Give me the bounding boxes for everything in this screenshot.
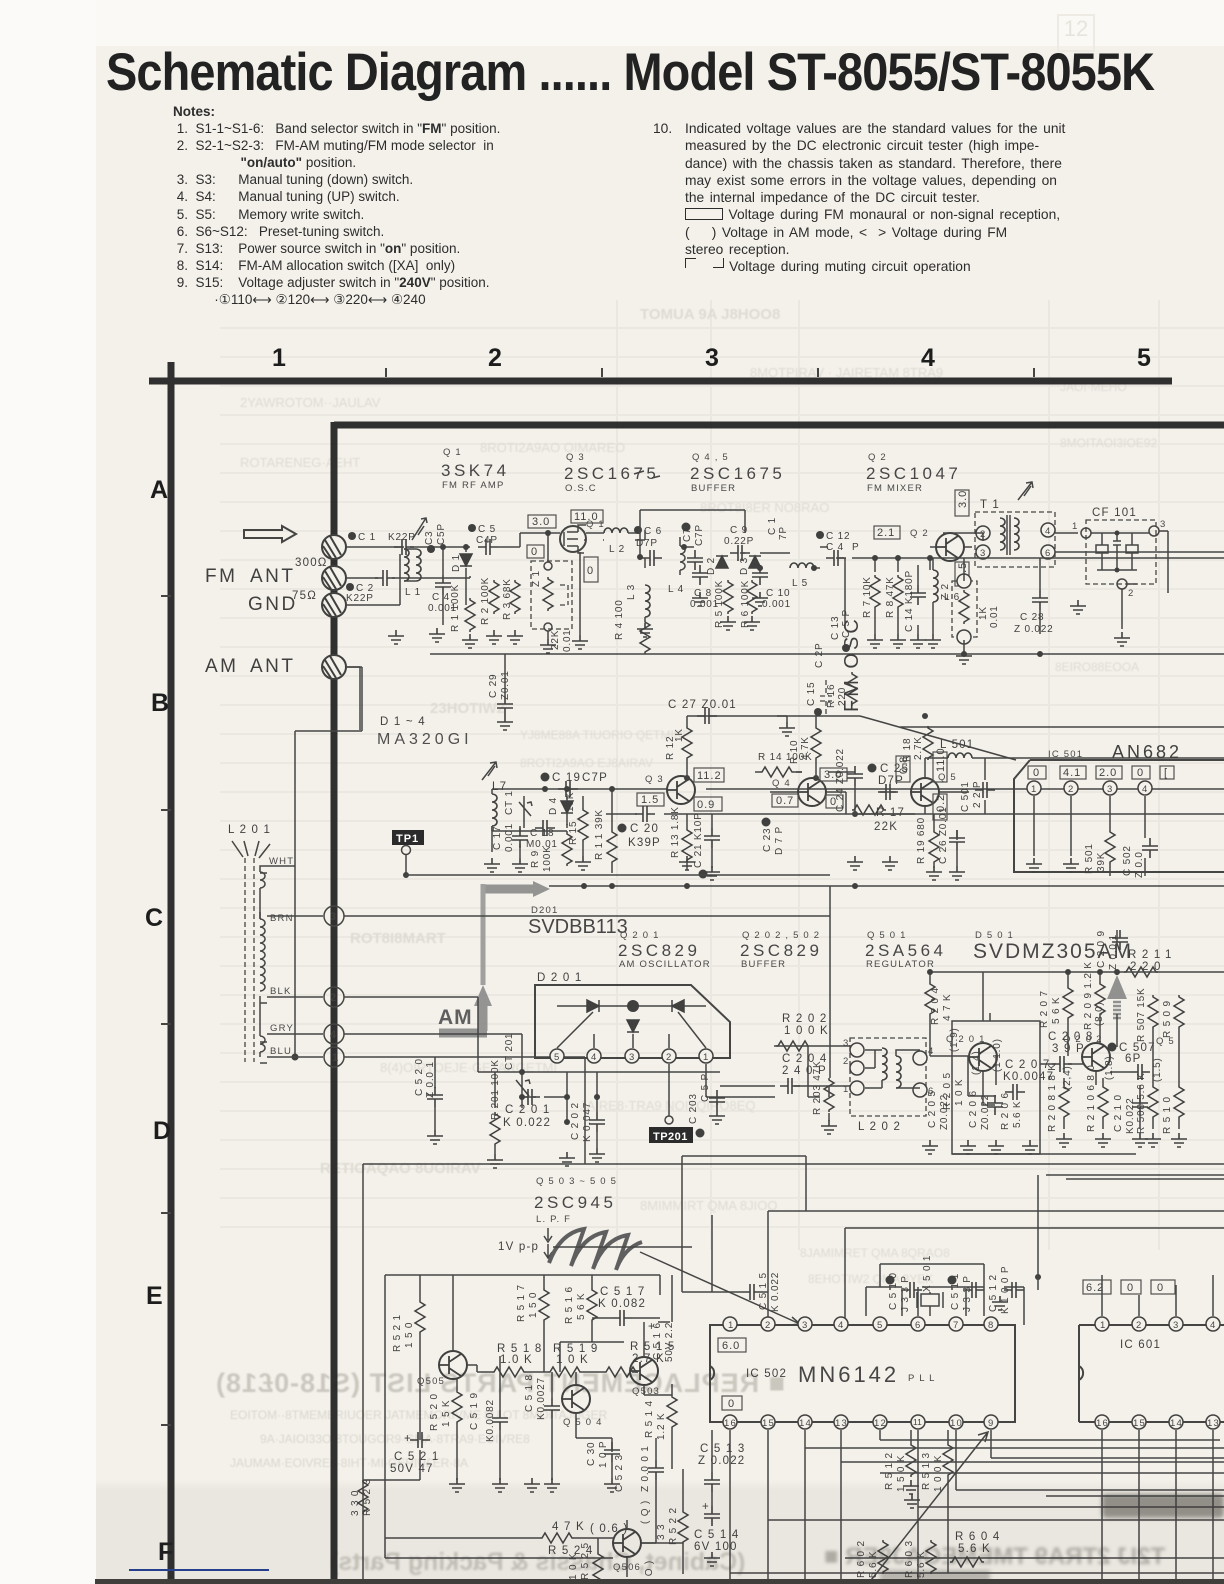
svg-text:C 6: C 6 <box>644 526 662 537</box>
resistor R507 15K <box>1136 988 1158 1042</box>
Z1 dashed network <box>531 530 580 652</box>
bottom blue line <box>129 1569 269 1571</box>
svg-text:Q 5: Q 5 <box>1156 1036 1175 1047</box>
svg-text:K0.0082: K0.0082 <box>485 1399 496 1442</box>
svg-text:L 2: L 2 <box>609 544 625 555</box>
capacitor C208 39P <box>1048 1031 1093 1072</box>
terminal circled 1 <box>324 1047 344 1067</box>
svg-text:K39P: K39P <box>628 837 661 849</box>
svg-text:4: 4 <box>1210 1320 1216 1331</box>
svg-text:2SC829: 2SC829 <box>740 941 822 960</box>
svg-text:11: 11 <box>913 1417 922 1427</box>
capacitor C209 Z0.01 <box>1096 930 1128 970</box>
svg-text:3: 3 <box>1173 1320 1179 1331</box>
svg-text:1 0 K: 1 0 K <box>556 1354 589 1366</box>
resistor R9 100K <box>530 832 572 872</box>
svg-text:0.001: 0.001 <box>504 823 515 852</box>
test point TP1 <box>392 830 424 878</box>
svg-text:R 13 1.8K: R 13 1.8K <box>670 806 681 858</box>
svg-text:D 7 P: D 7 P <box>774 826 785 855</box>
svg-text:50V 47: 50V 47 <box>390 1463 434 1475</box>
svg-text:L 3: L 3 <box>626 584 637 600</box>
svg-text:R 6 0 3: R 6 0 3 <box>904 1540 915 1578</box>
capacitor C514 6V100 <box>694 1500 739 1566</box>
svg-text:+: + <box>702 1501 710 1513</box>
svg-text:C 23: C 23 <box>762 828 773 852</box>
Q201 2SC829 label <box>618 930 711 970</box>
crystal X501 <box>917 1255 943 1308</box>
capacitor C201 K0.022 <box>503 1089 551 1129</box>
capacitor C515 K0.022 <box>712 1215 781 1312</box>
terminal circled 2 <box>324 987 344 1007</box>
Q202,502 2SC829 label <box>740 930 822 970</box>
svg-text:3: 3 <box>629 1052 635 1063</box>
D501 SVDMZ305AM label <box>973 930 1133 963</box>
capacitor on emitter row <box>635 806 655 822</box>
inductor L2 <box>586 528 640 557</box>
svg-text:1: 1 <box>1031 784 1037 795</box>
svg-text:11.2: 11.2 <box>697 770 722 782</box>
svg-text:Q 3: Q 3 <box>566 452 585 463</box>
svg-text:R 5 1 4: R 5 1 4 <box>644 1400 655 1438</box>
svg-text:R 1 100K: R 1 100K <box>450 584 461 632</box>
svg-text:C 203: C 203 <box>688 1093 699 1124</box>
AM feed arrow gray elbow <box>439 881 550 1033</box>
voltage box 2.1 <box>874 526 900 539</box>
ruler horizontal bar <box>149 378 1172 385</box>
test point TP201 <box>649 1108 693 1143</box>
svg-text:1K: 1K <box>978 606 989 620</box>
svg-text:AM: AM <box>205 656 239 677</box>
svg-text:Z 0.022: Z 0.022 <box>1014 624 1054 635</box>
svg-text:1K: 1K <box>674 728 685 742</box>
ruler left vertical bar <box>168 362 175 1584</box>
capacitor C26 Z0.01 <box>938 807 965 864</box>
resistor R204 47K <box>925 982 953 1025</box>
svg-text:C 5 1 0: C 5 1 0 <box>888 1272 899 1310</box>
svg-text:FM RF AMP: FM RF AMP <box>442 480 505 491</box>
bar antenna L201 <box>228 824 271 1062</box>
svg-text:BUFFER: BUFFER <box>691 483 736 494</box>
svg-text:R 5 1 7: R 5 1 7 <box>516 1284 527 1322</box>
voltage box 0.2 vertical <box>933 794 947 820</box>
wire verticals from terminals <box>398 547 470 578</box>
transistor Q4 <box>772 778 826 806</box>
capacitor C24 Z0.022 <box>835 748 863 814</box>
grid ruler numbers <box>272 344 286 373</box>
svg-text:5.6 K: 5.6 K <box>1012 1101 1023 1128</box>
svg-text:R 2 1 1: R 2 1 1 <box>1128 949 1173 961</box>
resistor R211 220 <box>1124 949 1173 977</box>
IC601 voltage boxes <box>1083 1280 1111 1294</box>
resistor R10 4.7K <box>789 726 821 764</box>
capacitor C517 K0.082 <box>592 1286 660 1326</box>
resistor R509 <box>1162 995 1184 1038</box>
svg-text:D7P: D7P <box>878 775 904 787</box>
svg-text:L 5: L 5 <box>792 578 808 589</box>
terminal GND <box>322 593 346 617</box>
resistor R510 <box>1162 1085 1184 1134</box>
svg-text:C 2 0 5: C 2 0 5 <box>927 1090 938 1128</box>
svg-text:R 508 5.6 K: R 508 5.6 K <box>1136 1072 1147 1134</box>
resistor R515 2.7K <box>604 1341 675 1377</box>
svg-text:3: 3 <box>843 1038 849 1049</box>
svg-text:D201: D201 <box>531 905 559 916</box>
resistor R17 22K <box>852 805 905 833</box>
svg-text:2: 2 <box>330 992 336 1004</box>
transistor Q504 <box>562 1385 603 1428</box>
capacitor C29 Z0.01 <box>488 654 513 730</box>
svg-text:GND: GND <box>248 594 298 615</box>
IC501 pins 1-4 <box>1027 781 1152 795</box>
transistor Q3 <box>645 774 695 804</box>
svg-text:7: 7 <box>953 1320 959 1331</box>
capacitor C4 0.001 <box>428 575 457 614</box>
svg-text:TP201: TP201 <box>653 1131 688 1143</box>
svg-text:R 2 0 4: R 2 0 4 <box>930 987 941 1025</box>
svg-text:8: 8 <box>988 1320 994 1331</box>
resistor R501 39K <box>1084 830 1115 874</box>
diode D2 <box>706 556 728 575</box>
capacitor C6 D7P <box>634 526 662 566</box>
long bus wires <box>363 1156 1224 1581</box>
svg-text:BRN: BRN <box>270 913 294 924</box>
MN6142 voltage boxes <box>718 1338 746 1352</box>
capacitor C9 0.22P <box>724 525 754 561</box>
svg-text:C 12: C 12 <box>826 531 850 542</box>
svg-text:C 5 1 7: C 5 1 7 <box>600 1286 645 1298</box>
svg-text:R 2 0 7: R 2 0 7 <box>1039 990 1050 1028</box>
svg-text:Q 2 0 1: Q 2 0 1 <box>620 930 660 941</box>
emitter row wire <box>606 813 1224 815</box>
resistor R11 39K <box>594 809 617 864</box>
capacitor C11 7P <box>767 514 789 540</box>
resistor R520 15K <box>429 1379 462 1480</box>
svg-text:C 5 2 0: C 5 2 0 <box>414 1058 425 1096</box>
svg-text:R 5 2 0: R 5 2 0 <box>429 1393 440 1431</box>
svg-text:K22P: K22P <box>346 593 374 604</box>
transistor Q5 <box>911 772 957 806</box>
svg-text:C 2 0 7: C 2 0 7 <box>1005 1059 1050 1071</box>
inductor L501 <box>940 739 974 758</box>
svg-text:Q 5 0 3 ~ 5 0 5: Q 5 0 3 ~ 5 0 5 <box>536 1176 617 1187</box>
svg-text:22K: 22K <box>874 821 898 833</box>
stray pen dashes <box>634 471 660 478</box>
svg-text:4: 4 <box>330 1029 337 1041</box>
svg-text:Z 0.0: Z 0.0 <box>1134 848 1145 878</box>
D201 diode module <box>535 972 730 1063</box>
svg-text:CF 101: CF 101 <box>1092 507 1137 519</box>
svg-text:6P: 6P <box>1125 1053 1141 1065</box>
svg-text:D 4: D 4 <box>548 797 559 815</box>
inductor L6 <box>933 570 960 603</box>
terminal circled 4 <box>324 1024 344 1044</box>
resistor R1 100K <box>450 584 475 632</box>
row B bottom bus <box>549 885 1224 887</box>
svg-text:C 5 2 1: C 5 2 1 <box>394 1451 439 1463</box>
capacitor C205 Z0.022 <box>927 1090 950 1130</box>
svg-text:5 6 K: 5 6 K <box>1051 997 1062 1024</box>
notes block <box>173 103 500 308</box>
svg-text:5.6 K: 5.6 K <box>868 1551 879 1578</box>
diode D501 gray arrow <box>1094 975 1127 1026</box>
voltage box 1.5 <box>637 793 664 806</box>
grounds under Q3 <box>679 856 695 870</box>
svg-text:13: 13 <box>1207 1418 1220 1429</box>
svg-text:1: 1 <box>332 1052 338 1064</box>
svg-text:[: [ <box>1164 767 1168 779</box>
capacitor C510 J33P <box>886 1272 923 1312</box>
svg-text:C 13: C 13 <box>830 616 841 640</box>
antenna trimmer L7 top <box>482 762 497 780</box>
svg-text:ANT: ANT <box>250 566 296 587</box>
svg-text:16: 16 <box>1096 1418 1109 1429</box>
resistor R209 1.2K <box>1083 961 1105 1030</box>
svg-text:Q 2 0 2: Q 2 0 2 <box>1063 1034 1103 1045</box>
svg-text:C7P: C7P <box>582 772 608 784</box>
capacitor C7 C7P <box>682 523 706 571</box>
capacitor C21 K10P <box>693 812 720 878</box>
capacitor C520 Z0.01 <box>414 1058 443 1144</box>
title <box>106 46 1154 99</box>
svg-text:T 1: T 1 <box>980 499 1000 511</box>
MOSFET Q1 <box>560 519 605 553</box>
MN6142 top pins 1-8 <box>723 1317 998 1331</box>
resistor R603 5.6K <box>904 1540 936 1578</box>
svg-text:2 2 P: 2 2 P <box>972 781 983 808</box>
svg-text:18K: 18K <box>565 792 576 812</box>
svg-text:C5P: C5P <box>436 523 447 545</box>
svg-text:C3: C3 <box>424 531 435 545</box>
svg-text:2: 2 <box>666 1052 672 1063</box>
svg-text:2SC829: 2SC829 <box>618 941 700 960</box>
svg-text:0: 0 <box>1157 1282 1164 1294</box>
capacitor C12 C4P <box>816 531 859 566</box>
resistor R18 2.7K <box>902 726 933 762</box>
voltage box 3.0 <box>820 768 847 781</box>
mirrored REPLACEMENT PARTS LIST <box>215 1368 785 1399</box>
svg-text:4: 4 <box>838 1320 844 1331</box>
svg-text:C 17: C 17 <box>492 826 503 850</box>
svg-text:C 24 Z0.022: C 24 Z0.022 <box>835 748 846 812</box>
svg-text:R 1 1 39K: R 1 1 39K <box>594 809 605 860</box>
transistor Q3 label 2SC1675 OSC <box>564 452 659 494</box>
svg-text:R 15: R 15 <box>568 821 579 845</box>
note 10 block <box>653 120 1093 276</box>
svg-text:9: 9 <box>988 1418 994 1429</box>
capacitor C14 K180P <box>904 570 926 632</box>
voltage box 0.8 vertical <box>896 756 910 782</box>
svg-text:GRY: GRY <box>270 1023 294 1034</box>
section C wires <box>478 997 775 1154</box>
capacitor C203 C5P <box>688 1073 725 1138</box>
capacitor C10 0.001 <box>752 565 791 610</box>
resistor R602 5.6K <box>856 1540 888 1578</box>
svg-text:C 1: C 1 <box>767 514 778 535</box>
svg-text:R 6 100K: R 6 100K <box>740 580 751 628</box>
svg-text:(1 1.0): (1 1.0) <box>992 1038 1003 1072</box>
resistor R207 56K <box>1039 986 1073 1028</box>
svg-text:Q 2: Q 2 <box>910 528 929 539</box>
svg-text:(1.4): (1.4) <box>971 1050 982 1075</box>
svg-text:Q 1: Q 1 <box>443 447 462 458</box>
pins 5 4 3 2 1 <box>550 1049 564 1063</box>
svg-text:15: 15 <box>1133 1418 1146 1429</box>
diagonal pointer to pin 9 <box>868 1432 988 1584</box>
capacitor C20 K39P <box>618 823 661 849</box>
voltage box 3.0 <box>528 515 556 528</box>
resistor R513 100K <box>921 1430 953 1573</box>
ceramic filter CF101 <box>1072 507 1166 599</box>
svg-text:P L L: P L L <box>908 1373 936 1384</box>
heavy schematic border top <box>334 422 1224 429</box>
capacitor C501 22P <box>960 781 995 812</box>
capacitor C207 K0.0047 <box>1003 1059 1054 1100</box>
resistor R8 47K <box>885 575 903 618</box>
svg-text:R 5 1 2: R 5 1 2 <box>884 1452 895 1490</box>
diode D4 <box>548 796 573 825</box>
resistor R7 10K <box>862 575 880 618</box>
resistor R12 1K <box>665 716 692 778</box>
svg-text:R 16: R 16 <box>826 684 837 708</box>
svg-text:4: 4 <box>1045 526 1051 537</box>
main wire row B <box>492 788 1224 790</box>
resistor R512 150K <box>884 1430 919 1494</box>
capacitor C23 D7P <box>762 818 786 856</box>
PLL IC502 MN6142 <box>710 1325 1015 1422</box>
svg-text:R 5 0 9: R 5 0 9 <box>1162 1000 1173 1038</box>
svg-text:0.9: 0.9 <box>697 799 715 811</box>
svg-text:C 501: C 501 <box>960 781 971 812</box>
svg-text:2: 2 <box>1068 784 1074 795</box>
svg-text:R 6 0 2: R 6 0 2 <box>856 1540 867 1578</box>
terminal circled 3 <box>324 906 344 926</box>
svg-text:39K: 39K <box>1096 852 1107 872</box>
svg-text:1 5 0: 1 5 0 <box>528 1292 539 1318</box>
svg-text:R 8 47K: R 8 47K <box>885 576 896 618</box>
svg-text:R 5 1 0: R 5 1 0 <box>1162 1096 1173 1134</box>
svg-text:C7P: C7P <box>694 524 705 546</box>
svg-text:C 2 0 9: C 2 0 9 <box>1096 930 1107 968</box>
voltage box 0.9 <box>694 797 722 811</box>
svg-text:1.0 K: 1.0 K <box>500 1354 533 1366</box>
1V p-p waveform <box>498 1228 692 1270</box>
capacitor C202 K0.047 <box>570 1102 605 1142</box>
svg-text:CT 1: CT 1 <box>504 790 515 815</box>
svg-text:D 1 ~ 4: D 1 ~ 4 <box>380 716 426 728</box>
svg-text:AM OSCILLATOR: AM OSCILLATOR <box>619 959 711 970</box>
svg-text:C 26 Z0.01: C 26 Z0.01 <box>938 807 949 864</box>
svg-text:R 5 1 3: R 5 1 3 <box>921 1452 932 1490</box>
svg-text:C 5 1 4: C 5 1 4 <box>694 1529 739 1541</box>
resistor R517 150 <box>516 1275 549 1372</box>
capacitor C3 C5P <box>424 523 447 553</box>
inductor L7 <box>492 781 507 831</box>
svg-text:R 507 15K: R 507 15K <box>1136 988 1147 1042</box>
svg-text:C4P: C4P <box>476 535 498 546</box>
antenna connection wires <box>260 667 362 1057</box>
svg-text:C 1: C 1 <box>358 532 376 543</box>
wire to Q1 <box>443 533 586 625</box>
svg-text:100K: 100K <box>542 845 553 872</box>
svg-text:C7: C7 <box>682 528 693 542</box>
capacitor C18 M0.01 <box>526 820 558 850</box>
svg-text:BLK: BLK <box>270 986 292 997</box>
grounds mid B <box>847 856 863 870</box>
resistor R19 680 <box>916 817 939 864</box>
capacitor C27 Z0.01 <box>668 699 795 736</box>
svg-text:22K: 22K <box>550 630 561 650</box>
svg-text:SVDBB113: SVDBB113 <box>528 916 628 938</box>
resistor R15 18K <box>565 792 588 845</box>
svg-text:K0.0027: K0.0027 <box>536 1377 547 1420</box>
capacitor C507 6P <box>1108 1042 1156 1080</box>
svg-text:14: 14 <box>799 1418 812 1429</box>
svg-text:2SC945: 2SC945 <box>534 1193 616 1212</box>
capacitor C210 K0.022 <box>1113 1094 1148 1134</box>
resistor R5 100K <box>714 580 733 628</box>
svg-text:R 4 100: R 4 100 <box>614 599 625 640</box>
capacitor C204 240P <box>780 1053 827 1094</box>
internal diodes <box>557 1005 706 1007</box>
input arrow <box>244 526 296 542</box>
svg-text:1.2 K: 1.2 K <box>656 1413 667 1440</box>
svg-text:R 501: R 501 <box>1084 843 1095 874</box>
svg-text:C 5 1 9: C 5 1 9 <box>469 1392 480 1430</box>
svg-text:C 4: C 4 <box>826 542 844 553</box>
svg-text:Q 2: Q 2 <box>868 452 887 463</box>
transistor Q2 <box>910 528 964 561</box>
svg-text:R 5 2 1: R 5 2 1 <box>392 1314 403 1352</box>
svg-text:1 0 0 K: 1 0 0 K <box>784 1025 829 1037</box>
svg-text:2: 2 <box>1136 1320 1142 1331</box>
svg-text:C 2 0 2: C 2 0 2 <box>570 1102 581 1140</box>
svg-text:2: 2 <box>843 1056 849 1067</box>
capacitor C17 0.001 <box>492 823 528 852</box>
svg-text:Z 0.022: Z 0.022 <box>698 1455 745 1467</box>
svg-text:MN6142: MN6142 <box>798 1362 899 1387</box>
svg-text:L 2 0 2: L 2 0 2 <box>858 1121 901 1133</box>
svg-text:R 19 680: R 19 680 <box>916 817 927 864</box>
svg-text:L 4: L 4 <box>668 584 684 595</box>
svg-text:1 0 K: 1 0 K <box>568 1553 579 1580</box>
diode D1 <box>451 554 472 572</box>
svg-text:R 5 100K: R 5 100K <box>714 580 725 628</box>
svg-text:+: + <box>648 1321 656 1333</box>
svg-text:6V 100: 6V 100 <box>694 1541 738 1553</box>
svg-text:10: 10 <box>950 1418 963 1429</box>
svg-text:L 501: L 501 <box>940 739 974 751</box>
svg-text:1V p-p: 1V p-p <box>498 1241 539 1253</box>
svg-text:2.1: 2.1 <box>877 527 895 539</box>
wires from terminals <box>344 916 830 1164</box>
capacitor C511 J33P <box>948 1273 985 1312</box>
resistor R210 680 <box>1086 1064 1108 1132</box>
wires upper section <box>584 510 1224 650</box>
svg-text:D 3: D 3 <box>739 557 750 575</box>
transformer L202 <box>843 1038 934 1133</box>
svg-text:0: 0 <box>1033 767 1040 779</box>
heavy schematic border left <box>331 422 338 1584</box>
svg-text:L 2 0 1: L 2 0 1 <box>228 824 271 836</box>
svg-text:D 2: D 2 <box>706 557 717 575</box>
svg-text:Q 4: Q 4 <box>772 778 791 789</box>
voltage box 0 b <box>584 557 598 582</box>
svg-text:C 5: C 5 <box>478 524 496 535</box>
inductor L4 <box>668 537 685 595</box>
X501 circuit wires <box>866 1264 1024 1325</box>
wires row B left <box>492 777 612 873</box>
